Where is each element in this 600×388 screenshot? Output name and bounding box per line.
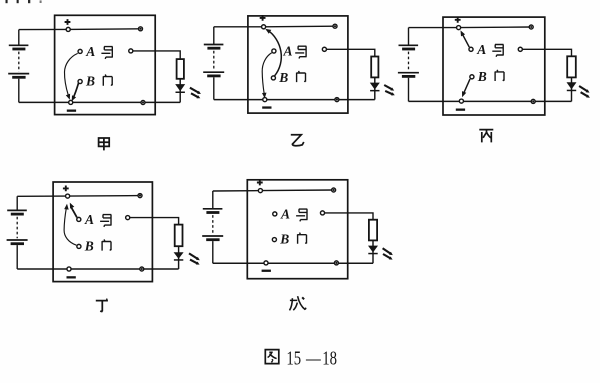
terminal output Y [320,211,324,215]
wire (+ terminal to top-right terminal) [459,26,532,29]
wire (resistor-LED to bottom rail) [178,246,180,269]
resistor R4 [175,225,183,247]
wire (resistor-LED to bottom rail) [374,77,376,99]
terminal top-right [138,194,142,198]
wire lead B to + (connected) [265,29,281,76]
label 丁 [96,298,108,311]
AND-gate box U2 [248,16,348,113]
terminal bottom-right [140,267,144,271]
terminal input A [469,47,473,51]
wire (+ terminal to top-right terminal) [260,189,333,192]
label 与 (AND) [100,215,111,227]
terminal + (power) [258,189,262,193]
svg-text:B: B [85,74,95,89]
terminal bottom-right [531,99,535,103]
terminal + (power) [66,194,70,198]
wire (output terminal to resistor branch) [323,213,374,220]
wire (resistor-LED to bottom rail) [372,240,374,263]
label 甲 [99,138,110,150]
label + (plus) [65,19,71,25]
terminal bottom-right [335,98,339,102]
terminal input A [272,49,276,53]
terminal output Y [322,47,326,51]
terminal - (power) [263,98,267,102]
terminal input B [470,75,474,79]
LED D3 light rays [579,86,590,98]
LED D2 [370,83,380,92]
terminal input A [78,49,82,53]
label - (minus) [262,106,271,108]
terminal - (power) [69,100,73,104]
wire (bottom rail battery to LED) [213,262,373,264]
LED D5 [368,246,378,255]
terminal input B [271,76,275,80]
wire (battery + to gate terminal) [19,28,68,30]
wire (bottom rail battery to LED) [214,99,375,101]
label 门 (gate) [495,70,504,81]
wire lead B to + (swing arc) [64,204,76,245]
terminal + (power) [66,27,70,31]
terminal output Y [129,49,133,53]
AND-gate box U4 [53,182,152,282]
svg-text:B: B [279,232,289,247]
terminal input B [78,79,82,83]
svg-text:B: B [278,70,288,85]
terminal top-right [139,27,143,31]
label - (minus) [262,270,271,272]
label A (input A) [476,42,486,57]
caption 图 15-18 [265,346,337,369]
label A (input A) [280,207,290,222]
terminal - (power) [459,99,463,103]
LED D3 [567,82,577,91]
wire (+ terminal to top-right terminal) [68,195,140,198]
terminal output Y [126,216,130,220]
LED D4 light rays [189,253,200,264]
wire (output terminal to resistor branch) [520,49,571,56]
LED D5 light rays [383,248,393,259]
label B (input B) [477,69,487,84]
resistor R3 [567,56,576,77]
LED D4 [174,252,184,261]
wire (battery + to gate terminal) [409,27,459,29]
wire (bottom rail battery to LED) [17,268,178,270]
resistor R5 [369,220,377,241]
svg-text:A: A [283,44,293,59]
label - (minus) [67,110,76,112]
wire (output terminal to resistor branch) [324,49,374,56]
label + (plus) [260,15,266,21]
wire lead B to - (connected) [72,83,79,101]
svg-text:A: A [280,207,290,222]
terminal input A [273,212,277,216]
label + (plus) [455,17,461,23]
wire lead B to - (connected) [462,79,470,97]
terminal top-right [332,188,336,192]
terminal - (power) [67,267,71,271]
LED D1 [175,84,185,93]
terminal input B [272,238,276,242]
svg-text:A: A [476,42,486,57]
label 门 (gate) [298,233,307,244]
label 与 (AND) [296,209,307,221]
AND-gate box U5 [247,180,347,279]
battery G1 [8,30,29,103]
svg-text:B: B [84,238,94,253]
label 门 (gate) [102,239,111,250]
wire (resistor-LED to bottom rail) [571,77,573,101]
stray cut-off text marks at top edge [6,0,42,3]
svg-text:15: 15 [286,346,301,369]
wire lead A to - (swing arc) [64,53,77,99]
label A (input A) [85,44,95,59]
label 与 (AND) [295,46,306,58]
AND-gate box U1 [55,15,156,114]
resistor R2 [371,57,378,78]
wire (bottom rail battery to LED) [409,100,572,102]
wire (output terminal to resistor branch) [131,51,180,59]
label 丙 [479,130,493,143]
terminal + (power) [457,26,461,30]
wire (+ terminal to top-right terminal) [68,28,140,31]
terminal - (power) [264,261,268,265]
label B (input B) [279,232,289,247]
svg-text:A: A [85,44,95,59]
terminal top-right [333,24,337,28]
label 乙 [291,135,304,146]
terminal top-right [529,25,533,29]
wire (resistor-LED to bottom rail) [179,79,181,103]
battery G5 [202,191,223,263]
label - (minus) [456,109,465,111]
wire lead A to - (swing arc) [262,53,272,99]
terminal + (power) [262,25,266,29]
label 戊 [290,296,306,310]
label B (input B) [84,238,94,253]
terminal bottom-right [334,261,338,265]
svg-text:18: 18 [322,346,337,369]
label B (input B) [85,74,95,89]
label A (input A) [84,212,94,227]
label + (plus) [63,186,69,192]
terminal input A [77,217,81,221]
wire (bottom rail battery to LED) [19,101,180,103]
wire (battery + to gate terminal) [213,190,261,192]
wire (battery + to gate terminal) [214,26,264,28]
wire lead A to + (connected) [461,30,470,47]
terminal input B [77,244,81,248]
wire lead A to + (connected) [70,203,77,218]
battery G3 [398,28,419,102]
LED D2 light rays [384,85,395,95]
label 与 (AND) [492,45,503,57]
AND-gate box U3 [443,17,545,115]
battery G2 [203,27,224,100]
wire (battery + to gate terminal) [17,195,67,197]
wire (+ terminal to top-right terminal) [264,25,335,28]
label - (minus) [67,276,76,278]
svg-text:B: B [477,69,487,84]
label 门 (gate) [103,75,112,86]
svg-text:A: A [84,212,94,227]
label 门 (gate) [297,71,306,82]
label B (input B) [278,70,288,85]
resistor R1 [177,59,184,79]
LED D1 light rays [190,88,201,99]
label 与 (AND) [101,47,112,59]
label A (input A) [283,44,293,59]
terminal bottom-right [141,101,145,105]
wire (output terminal to resistor branch) [128,218,179,225]
battery G4 [7,196,28,269]
terminal output Y [518,47,522,51]
label + (plus) [257,180,263,186]
svg-text:—: — [305,346,321,369]
